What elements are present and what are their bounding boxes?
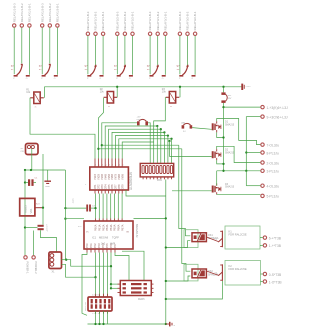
node Q2-rail junction: [222, 163, 224, 165]
transistor T2: [214, 264, 222, 281]
svg-text:S5: S5: [147, 69, 150, 71]
node R2-rail junction: [116, 86, 118, 88]
pin RELAY2/1-B-3: [86, 11, 90, 35]
svg-text:MEGA8-AI: MEGA8-AI: [135, 224, 139, 238]
pin 12-K2b: [261, 280, 283, 285]
wire out4 link: [217, 170, 261, 172]
svg-text:VC: VC: [86, 232, 89, 234]
svg-text:S4: S4: [114, 69, 117, 71]
wire Q2 drain to out: [217, 146, 261, 162]
wire RN riser 1: [156, 126, 158, 163]
opto OK2: [192, 269, 219, 278]
wire IC1-IC2 2: [98, 194, 100, 219]
pin RELAY3/1-B-2: [156, 11, 160, 35]
svg-text:IN9B: IN9B: [121, 174, 124, 180]
op-amp U2 microcontroller IC2: [78, 219, 139, 253]
wire IC2 pin95 to header: [95, 253, 97, 298]
node bus8 tee: [101, 144, 103, 146]
node bus5-RN tee: [167, 134, 169, 136]
wire RN riser 2: [160, 129, 162, 163]
wire reg input: [42, 154, 44, 208]
pin RELAY1/1-B-2: [20, 3, 24, 27]
svg-text:P: P: [41, 78, 43, 80]
wire IC1-IC2 6: [114, 194, 116, 219]
svg-text:9: 9: [122, 164, 124, 166]
wire Q1 source to rail: [217, 132, 224, 137]
svg-text:RELAY1/1-B-1: RELAY1/1-B-1: [28, 3, 32, 22]
wire R1 right riser: [43, 87, 45, 98]
wire Q1 drain to out: [217, 119, 261, 145]
supply +12V pin: [241, 84, 251, 90]
wire +12V out: [224, 106, 261, 108]
svg-text:12V: 12V: [228, 98, 232, 100]
svg-text:1-+*T3B: 1-+*T3B: [269, 244, 282, 248]
wire header to gnd: [99, 311, 101, 324]
pin 6-K1a: [260, 236, 282, 240]
wire opto2 out: [206, 271, 218, 275]
pin 9-+12V: [261, 115, 288, 120]
wire bus9: [98, 148, 181, 150]
wire Q3 drain: [216, 171, 218, 186]
svg-text:O: O: [54, 78, 56, 80]
resistor network RN1: [140, 163, 174, 182]
svg-text:ULN2803LW: ULN2803LW: [129, 172, 133, 190]
svg-text:RELAY2/1-B-1: RELAY2/1-B-1: [101, 11, 105, 30]
svg-text:PB3A: PB3A: [106, 224, 109, 231]
transistor Q regulator IC3 78L05: [20, 198, 43, 216]
wire G1 bottom: [31, 149, 33, 171]
pin RELAY1/2-B-3: [40, 3, 44, 27]
wire +12V rail: [44, 86, 242, 88]
wire vcc rail vertical: [64, 170, 66, 260]
wire S4 pin1: [116, 36, 118, 74]
wire S3 pin2: [95, 36, 97, 67]
svg-text:AVR: AVR: [110, 242, 115, 246]
wire S5 pin2: [157, 36, 159, 67]
svg-text:PB7A: PB7A: [121, 224, 124, 231]
wire SJ gate link: [192, 128, 212, 130]
node R3-rail junction: [179, 86, 181, 88]
svg-text:RELAY2/2-B-1: RELAY2/2-B-1: [131, 11, 135, 30]
node gnd rail dot: [94, 323, 96, 325]
node rail2 out tee: [245, 151, 247, 153]
wire IC1-IC2 1: [95, 194, 97, 219]
wire vplus down: [24, 170, 26, 255]
svg-text:PD1: PD1: [90, 243, 93, 248]
capacitor C1: [25, 178, 38, 186]
svg-text:O: O: [100, 78, 102, 80]
svg-text:RELAY1/1-B-2: RELAY1/1-B-2: [20, 3, 24, 22]
transistor T1: [214, 231, 222, 248]
wire IC2 pin103 to header: [103, 253, 105, 298]
wire S6 pin1: [179, 36, 181, 74]
wire rail2 tail: [245, 171, 247, 186]
wire S3 pin3: [102, 36, 104, 75]
svg-text:RELAY3/2-B-2: RELAY3/2-B-2: [186, 11, 190, 30]
svg-text:1-O*T3B: 1-O*T3B: [269, 280, 283, 284]
svg-text:6-+*T3B: 6-+*T3B: [269, 236, 282, 240]
pin 7-OUT1: [261, 143, 280, 147]
svg-text:S1: S1: [11, 69, 14, 71]
svg-text:P: P: [179, 78, 181, 80]
wire opto1 pin2 return: [166, 241, 191, 248]
pin RELAY2/2-B-3: [115, 11, 119, 35]
svg-text:1: 1: [95, 164, 97, 166]
pin RELAY1/1-B-1: [28, 3, 32, 27]
svg-text:OT9: OT9: [121, 184, 124, 189]
node gnd rail tee1: [165, 217, 167, 219]
solder jumper SJ1: [137, 117, 149, 126]
wire bus7: [122, 142, 154, 159]
svg-text:G: G: [174, 325, 176, 327]
wire vcc to IC2 left: [65, 218, 84, 220]
svg-text:P: P: [149, 78, 151, 80]
svg-text:100n: 100n: [73, 198, 75, 204]
svg-text:S3: S3: [85, 69, 88, 71]
wire S4 pin2: [124, 36, 126, 67]
svg-text:RELAY3/1-B-1: RELAY3/1-B-1: [163, 11, 167, 30]
node ISP tee3: [110, 287, 112, 289]
svg-text:2 4 6 8 10: 2 4 6 8 10: [92, 295, 100, 297]
svg-text:TQFP: TQFP: [112, 236, 119, 240]
svg-text:8-PL3Ju: 8-PL3Ju: [267, 151, 279, 155]
svg-text:+12V: +12V: [245, 86, 251, 88]
svg-text:1: 1: [85, 184, 87, 186]
svg-text:RN1: RN1: [157, 179, 162, 182]
svg-text:m: m: [170, 106, 172, 108]
relay K1 box: [225, 226, 260, 249]
pin RELAY3/1-B-1: [163, 11, 167, 35]
node cap-bus junction: [94, 207, 96, 209]
resistor R1 10k: [26, 89, 44, 109]
pin RELAY2/2-B-1: [131, 11, 135, 35]
wire SJ1 to RN pin1: [148, 123, 150, 164]
svg-text:RELAY2/2-B-3: RELAY2/2-B-3: [115, 11, 119, 30]
svg-text:RELAY3/1-B-2: RELAY3/1-B-2: [156, 11, 160, 30]
wire reg to C2: [42, 208, 44, 225]
wire S5 pin1: [149, 36, 151, 74]
node power junction1: [24, 169, 26, 171]
wire IC1-IC2 3: [102, 194, 104, 219]
svg-text:MEGA8: MEGA8: [99, 236, 109, 240]
pin 5-OUT6: [261, 194, 279, 199]
svg-text:5-PL3Ju: 5-PL3Ju: [267, 195, 279, 199]
wire ISP top feed2: [122, 251, 144, 280]
wire bus1: [102, 123, 137, 159]
svg-text:S2: S2: [39, 69, 42, 71]
svg-text:IC2: IC2: [78, 226, 82, 228]
relay coil frame 1: [184, 230, 198, 248]
wire RN riser 5: [171, 139, 173, 164]
node pin2-bus tee: [97, 148, 99, 150]
wire T2 emitter return: [166, 281, 223, 299]
capacitor C3 100n: [73, 198, 96, 212]
svg-text:PB2A: PB2A: [102, 224, 105, 231]
wire S1 pin1: [13, 28, 15, 75]
wire Q2 source to rail: [217, 160, 224, 164]
svg-text:RELAY2/2-B-2: RELAY2/2-B-2: [123, 11, 127, 30]
wire IC2 to gnd rail: [134, 217, 166, 219]
svg-text:P: P: [117, 78, 119, 80]
node bus4-RN tee: [163, 131, 165, 133]
svg-text:IC1: IC1: [92, 236, 97, 240]
wire power top rail: [25, 169, 65, 171]
wire R3 right riser: [179, 87, 181, 98]
svg-text:4-OL3Ju: 4-OL3Ju: [267, 185, 280, 189]
svg-text:1000uF: 1000uF: [46, 224, 48, 232]
pin RELAY1/2-B-1: [56, 3, 60, 27]
svg-text:3: 3: [102, 164, 104, 166]
resistor R2 10k: [100, 88, 118, 108]
svg-text:RELAY3/2-B-3: RELAY3/2-B-3: [178, 11, 182, 30]
wire S2 pin1: [41, 28, 43, 75]
pin 10-K1b: [260, 244, 282, 249]
pin 8-OUT2: [261, 151, 279, 156]
wire RN riser 4: [167, 136, 169, 164]
pin POWER-1: [24, 256, 30, 274]
svg-text:PB6A: PB6A: [118, 224, 121, 231]
pin RELAY1/1-B-3: [12, 3, 16, 27]
svg-text:RELAY3/1-B-3: RELAY3/1-B-3: [148, 11, 152, 30]
wire rail2 out: [246, 152, 260, 154]
node reg junction: [42, 207, 44, 209]
svg-text:3-PL3Ju: 3-PL3Ju: [267, 170, 279, 174]
svg-text:78L05: 78L05: [24, 205, 28, 214]
svg-text:POWER-1: POWER-1: [26, 262, 30, 275]
wire header to gnd: [95, 311, 97, 324]
pin RELAY2/2-B-2: [123, 11, 127, 35]
transistor Q3 MOSFET: [212, 183, 235, 195]
connector G1 battery: [21, 144, 39, 155]
ground GND2: [166, 322, 176, 327]
svg-text:m: m: [35, 107, 37, 109]
relay K2 box: [225, 261, 261, 286]
node gnd rail tee2: [165, 246, 167, 248]
wire POWER-2 up: [33, 231, 35, 256]
wire gnd rail bottom: [88, 323, 166, 325]
pin RELAY3/1-B-3: [148, 11, 152, 35]
svg-text:RELAY1/2-B-2: RELAY1/2-B-2: [48, 3, 52, 22]
svg-text:POWER-2: POWER-2: [34, 262, 38, 275]
wire ISP in2: [111, 287, 118, 289]
wire rail1: [223, 103, 225, 171]
switch S3: [85, 65, 104, 80]
node C1 tap: [24, 181, 26, 183]
wire out5 link: [246, 185, 260, 187]
svg-text:GND: GND: [45, 186, 50, 188]
switch S1: [11, 64, 30, 80]
node bus6-RN tee: [170, 138, 172, 140]
node gnd rail dot: [102, 323, 104, 325]
wire opto1 feed: [179, 145, 191, 236]
wire R2 right riser: [116, 87, 118, 98]
node rail1 end junction: [222, 170, 224, 172]
svg-text:7-OL3Ju: 7-OL3Ju: [267, 143, 280, 147]
wire X1 pin3 to header: [62, 264, 96, 277]
wire S6 pin3: [194, 36, 196, 75]
svg-text:2x2: 2x2: [101, 242, 106, 246]
svg-text:2x5-2,54: 2x5-2,54: [85, 302, 87, 311]
pin RELAY1/2-B-2: [48, 3, 52, 27]
switch S2: [39, 64, 58, 80]
svg-text:+5V: +5V: [137, 117, 141, 119]
wire opto1 out: [206, 237, 218, 242]
wire X1 pin2 to IC2: [66, 260, 111, 267]
wire R3 to RN pin2: [154, 97, 166, 163]
wire S4 pin3: [132, 36, 134, 75]
svg-text:1-+3(K)6+-L3J: 1-+3(K)6+-L3J: [267, 106, 289, 110]
wire ISP in1: [111, 283, 118, 285]
wire +12V sense: [246, 116, 260, 118]
wire S2 pin3: [56, 28, 58, 75]
svg-text:10k: 10k: [162, 91, 167, 94]
resistor R3 10k: [162, 88, 180, 108]
svg-text:10k: 10k: [100, 91, 105, 94]
wire gnd rail main: [165, 180, 167, 325]
solder jumper SJ2: [221, 92, 232, 103]
wire S1 pin2: [21, 28, 23, 64]
wire bus2: [105, 126, 157, 159]
wire opto2 feed: [182, 149, 191, 271]
svg-text:5: 5: [109, 164, 111, 166]
capacitor C2 1000uF: [25, 224, 48, 232]
svg-text:O: O: [26, 78, 28, 80]
pin RELAY2/1-B-1: [101, 11, 105, 35]
transistor Q2 MOSFET: [212, 149, 235, 161]
solder jumper SJ3: [181, 123, 192, 133]
svg-text:C1: C1: [35, 178, 39, 180]
wire IC1-IC2 5: [110, 194, 112, 219]
pin 3-OUT4: [261, 169, 279, 174]
pin RELAY3/2-B-3: [178, 11, 182, 35]
connector X1: [49, 252, 62, 274]
svg-text:PB5A: PB5A: [114, 224, 117, 231]
pin 4-OUT5: [261, 184, 280, 189]
node Q1-rail junction: [222, 136, 224, 138]
wire RN riser 3: [163, 132, 165, 163]
wire bus8: [102, 144, 179, 146]
svg-text:PB1A: PB1A: [99, 224, 102, 231]
svg-text:SJ2: SJ2: [228, 95, 233, 97]
svg-text:6: 6: [112, 164, 114, 166]
node ISP tee1: [110, 265, 112, 267]
node Q2 gate tee: [168, 140, 170, 142]
svg-text:CR: CR: [21, 151, 25, 153]
svg-text:PB0A: PB0A: [95, 224, 98, 231]
svg-text:FDR RAL2C5E: FDR RAL2C5E: [229, 267, 247, 271]
wire bus6: [119, 139, 172, 159]
node power junction2: [30, 169, 32, 171]
svg-text:SJ: SJ: [183, 131, 185, 133]
svg-text:SMAJ15: SMAJ15: [225, 151, 235, 154]
svg-text:7: 7: [116, 164, 118, 166]
wire IC1-IC2 4: [106, 194, 108, 219]
pin RELAY3/2-B-2: [186, 11, 190, 35]
node bus3-RN tee: [160, 128, 162, 130]
wire C2 to X1: [41, 230, 57, 252]
svg-text:0-S*T3B: 0-S*T3B: [269, 273, 282, 277]
wire IC2 pin107 to header: [107, 253, 109, 298]
pin RELAY2/1-B-2: [94, 11, 98, 35]
pin 1-+12V: [261, 105, 288, 110]
node ISP tee2: [110, 283, 112, 285]
svg-text:VR1: VR1: [29, 208, 33, 214]
svg-text:2: 2: [99, 164, 101, 166]
relay coil frame 2: [184, 264, 198, 281]
svg-text:IC3: IC3: [36, 204, 40, 206]
svg-text:RELAY1/2-B-3: RELAY1/2-B-3: [40, 3, 44, 22]
node gnd rail tee3: [165, 280, 167, 282]
svg-text:RELAY2/1-B-2: RELAY2/1-B-2: [94, 11, 98, 30]
wire IC2 pin99 to header: [99, 253, 101, 298]
svg-text:RELAY2/1-B-3: RELAY2/1-B-3: [86, 11, 90, 30]
op-amp U1 driver IC1: [85, 159, 133, 194]
svg-text:X1: X1: [52, 271, 56, 274]
node C2 tap: [24, 226, 26, 228]
switch S5: [147, 65, 166, 80]
svg-text:PD5: PD5: [106, 243, 109, 248]
wire bus5: [115, 136, 167, 159]
svg-text:10k: 10k: [26, 91, 31, 94]
svg-text:SMAJ15: SMAJ15: [225, 186, 235, 189]
wire IC2 to ISP vertical: [110, 253, 112, 289]
svg-text:RELAY3/2-B-1: RELAY3/2-B-1: [193, 11, 197, 30]
svg-text:9-+3Ch6+-L3J: 9-+3Ch6+-L3J: [267, 116, 288, 120]
wire Q3 source to out: [217, 193, 261, 195]
node vcc ic2 tee: [64, 218, 66, 220]
switch S6: [177, 65, 196, 80]
connector JP1 header: [85, 294, 112, 315]
ground GND1: [44, 170, 51, 188]
node bus2-RN tee: [156, 125, 158, 127]
node vcc cap tee: [64, 207, 66, 209]
wire bus4: [112, 132, 164, 158]
wire IC1-IC2 8: [121, 194, 123, 219]
wire header to gnd: [107, 311, 109, 324]
svg-text:4: 4: [105, 164, 107, 166]
pin RELAY3/2-B-1: [193, 11, 197, 35]
wire S5 pin3: [164, 36, 166, 75]
switch S4: [114, 65, 133, 80]
node header col2 tee: [94, 276, 96, 278]
svg-text:PD0: PD0: [86, 243, 89, 248]
wire IC1 out to gnd rail: [126, 190, 166, 196]
wire opto2 pin2 return: [166, 276, 191, 281]
wire IC2 left pin down: [82, 253, 87, 316]
svg-text:FDR RAL2C5E: FDR RAL2C5E: [229, 233, 247, 237]
svg-text:SMAJ15: SMAJ15: [225, 124, 235, 127]
wire IC1-IC2 7: [117, 194, 119, 219]
wire S6 pin2: [187, 36, 189, 67]
svg-text:MLW6: MLW6: [138, 299, 145, 301]
node X1 pin2 junction: [65, 259, 67, 261]
wire vcc to cap: [65, 207, 86, 209]
svg-text:O: O: [162, 78, 164, 80]
wire Q2 gate feed: [170, 156, 212, 158]
svg-text:PB4A: PB4A: [110, 224, 113, 231]
wire rail2: [245, 117, 247, 171]
svg-text:RELAY1/1-B-3: RELAY1/1-B-3: [12, 3, 16, 22]
svg-text:P: P: [87, 78, 89, 80]
wire S2 pin2: [49, 28, 51, 64]
wire Q2 gate drop: [169, 141, 171, 157]
node gnd rail end: [165, 323, 167, 325]
svg-text:RELAY1/2-B-1: RELAY1/2-B-1: [56, 3, 60, 22]
wire X1 pin2: [62, 259, 67, 261]
node gnd rail tee4: [165, 298, 167, 300]
svg-text:S6: S6: [177, 69, 180, 71]
svg-text:8: 8: [119, 164, 121, 166]
